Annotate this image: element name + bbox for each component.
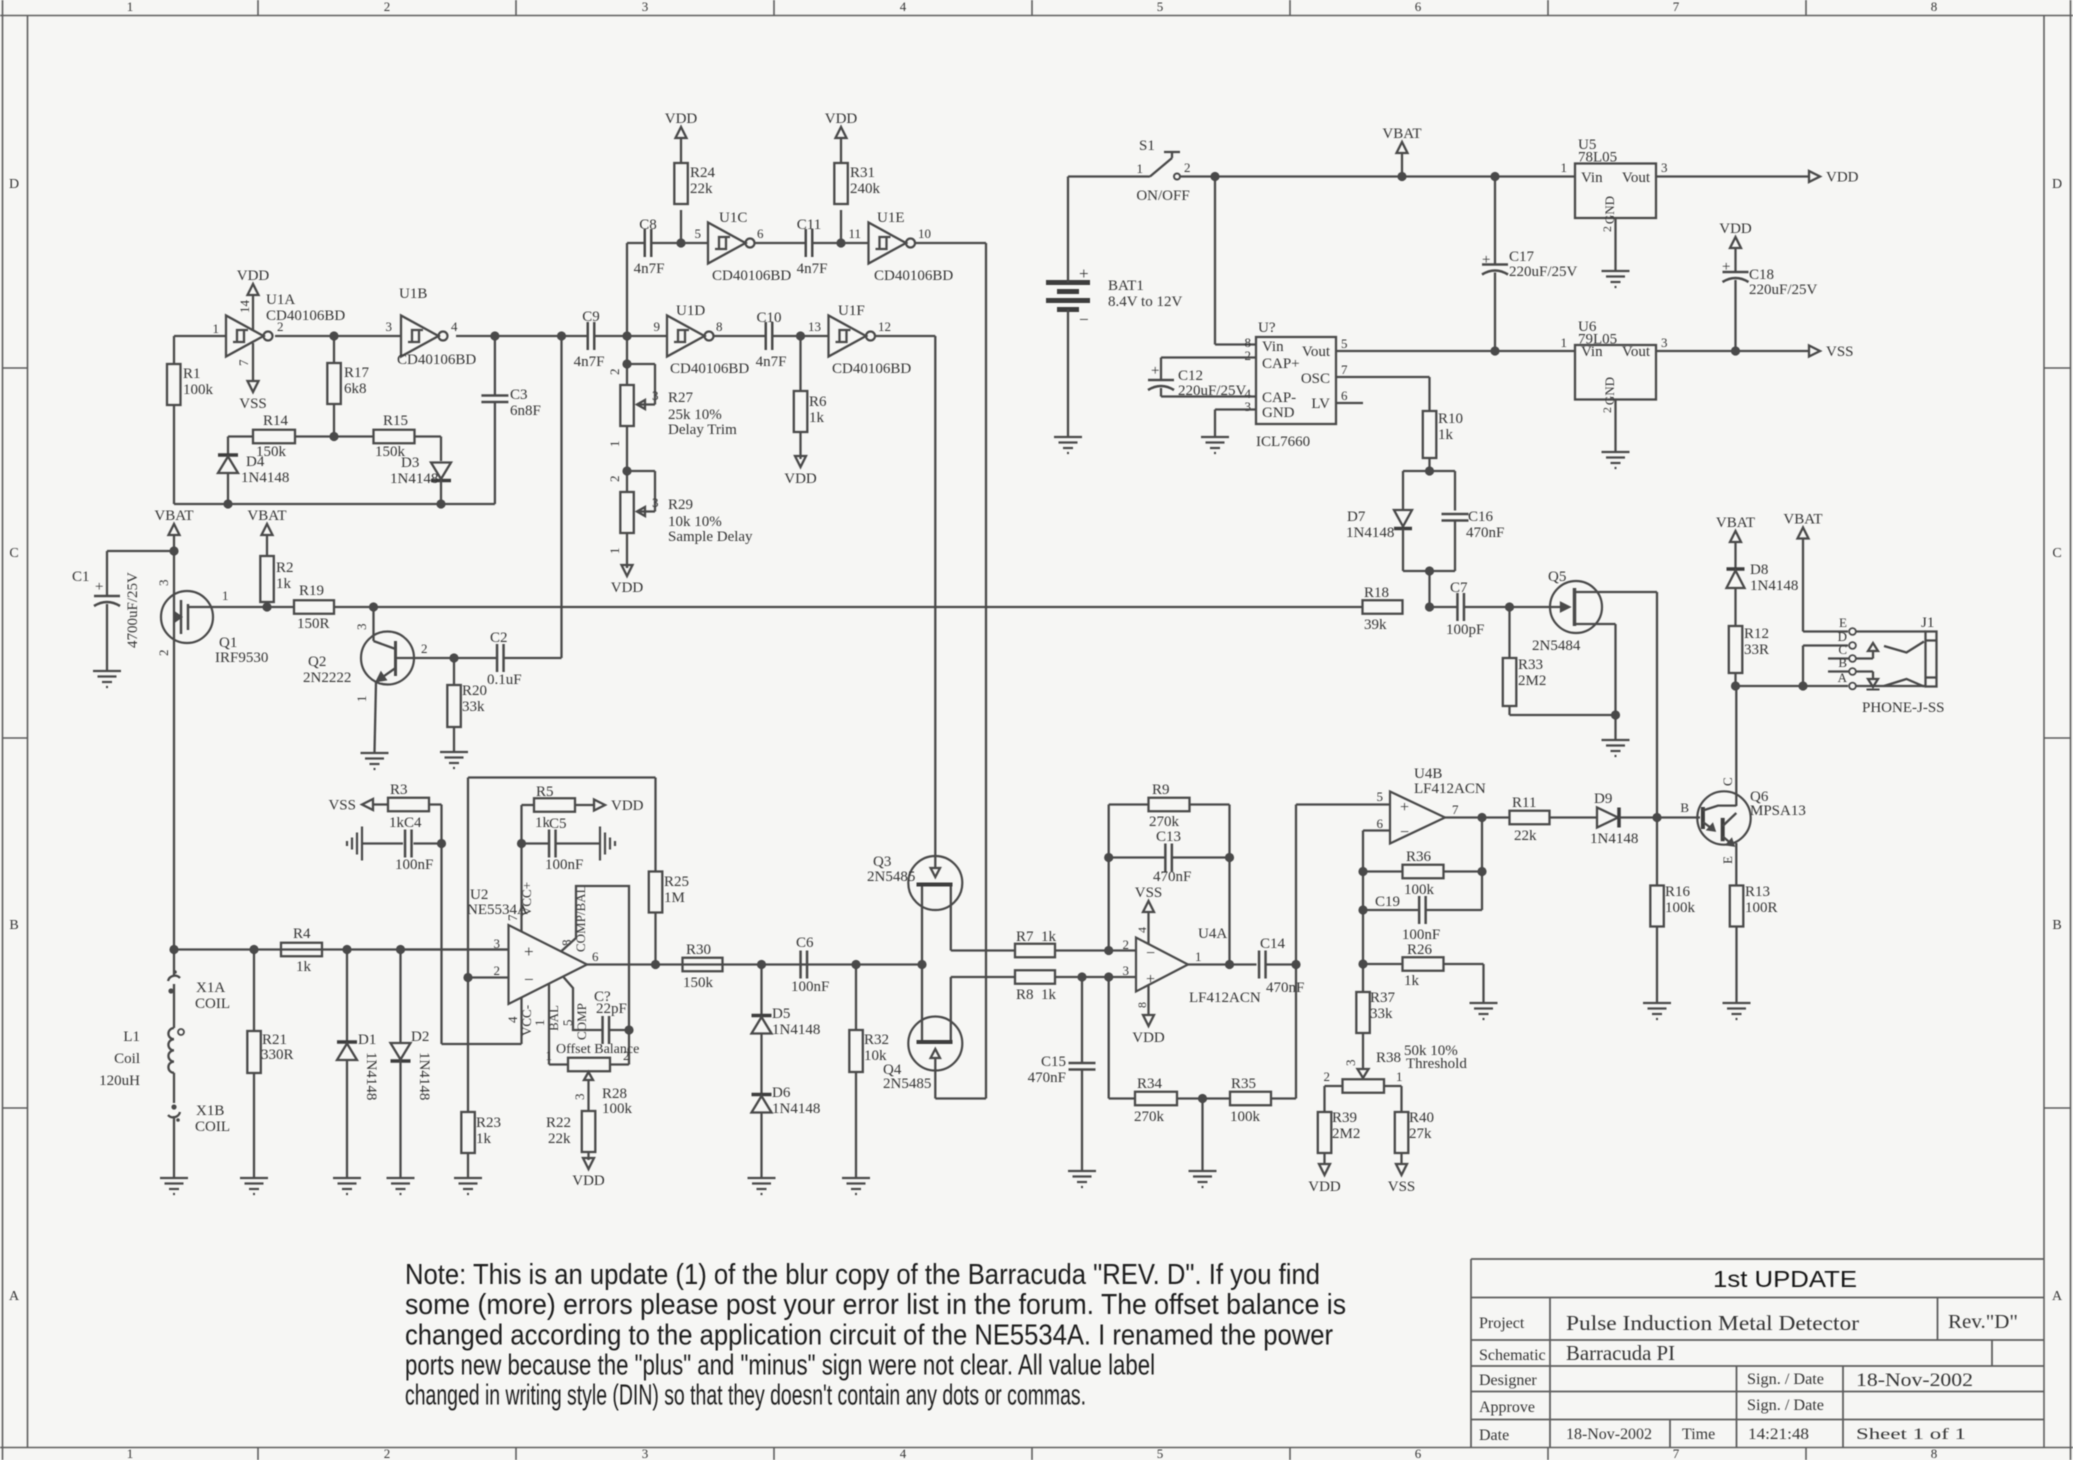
wire C14 node down to R35 — [1295, 965, 1297, 1099]
svg-text:Vout: Vout — [1622, 344, 1651, 360]
svg-text:3: 3 — [1245, 399, 1252, 414]
svg-text:3: 3 — [652, 495, 659, 510]
op-amp U4A LF412ACN — [1136, 938, 1188, 992]
node D1 top — [342, 945, 351, 954]
svg-text:U1E: U1E — [877, 210, 905, 226]
svg-text:VBAT: VBAT — [1716, 515, 1755, 531]
svg-text:6: 6 — [1341, 388, 1348, 403]
ground below D6 — [748, 1177, 776, 1179]
capacitor C5 — [522, 842, 550, 844]
svg-text:Date: Date — [1479, 1427, 1509, 1444]
node U4B output tie — [1477, 813, 1486, 822]
svg-text:R25: R25 — [664, 874, 689, 890]
resistor R15 — [334, 435, 374, 437]
svg-text:1: 1 — [222, 588, 229, 603]
svg-text:R28: R28 — [602, 1086, 627, 1102]
node D5 top — [757, 960, 766, 969]
capacitor C6 — [799, 951, 802, 979]
resistor R37 — [1356, 992, 1370, 1033]
svg-text:CD40106BD: CD40106BD — [397, 352, 476, 368]
svg-text:1st UPDATE: 1st UPDATE — [1713, 1266, 1857, 1292]
resistor R12 — [1729, 626, 1743, 673]
svg-text:changed in writing style (DIN): changed in writing style (DIN) so that t… — [405, 1380, 1086, 1412]
svg-text:R23: R23 — [476, 1115, 501, 1131]
svg-text:C3: C3 — [510, 387, 528, 403]
svg-text:8: 8 — [1931, 1446, 1938, 1460]
svg-text:−: − — [1079, 310, 1089, 329]
node D7/C16 bottom — [1425, 566, 1434, 575]
resistor R8 — [1015, 970, 1055, 984]
svg-text:240k: 240k — [850, 181, 881, 197]
op-amp U2 NE5534A — [509, 925, 588, 1004]
node R27/R29 tie — [622, 466, 631, 475]
svg-text:D: D — [9, 177, 19, 192]
svg-text:1N4148: 1N4148 — [1750, 578, 1798, 594]
svg-text:220uF/25V: 220uF/25V — [1749, 282, 1818, 298]
node jack A tie — [1798, 681, 1807, 690]
svg-text:10: 10 — [918, 226, 931, 241]
svg-text:R6: R6 — [809, 394, 827, 410]
regulator U5 78L05 — [1575, 164, 1656, 219]
svg-text:A: A — [2052, 1289, 2063, 1304]
inverter U1E — [869, 223, 907, 264]
svg-text:470nF: 470nF — [1153, 869, 1191, 885]
svg-text:1N4148: 1N4148 — [1590, 831, 1638, 847]
svg-text:2N2222: 2N2222 — [303, 670, 351, 686]
svg-text:2: 2 — [607, 369, 622, 376]
transistor Q4 2N5485 — [908, 1017, 962, 1071]
svg-text:+: + — [1482, 252, 1490, 268]
svg-text:R13: R13 — [1745, 884, 1770, 900]
node C13 left — [1104, 853, 1113, 862]
svg-text:11: 11 — [848, 226, 861, 241]
power VSS above U4A — [1147, 912, 1149, 944]
svg-text:X1B: X1B — [196, 1103, 224, 1119]
svg-text:1: 1 — [1195, 949, 1202, 964]
resistor R35 — [1230, 1092, 1271, 1106]
svg-text:78L05: 78L05 — [1578, 150, 1617, 166]
svg-text:+: + — [1400, 799, 1409, 816]
svg-text:R30: R30 — [686, 942, 711, 958]
svg-text:1k: 1k — [1404, 973, 1420, 989]
node C17 top — [1490, 172, 1499, 181]
svg-text:2: 2 — [607, 476, 622, 483]
svg-text:2: 2 — [421, 641, 428, 656]
node D7/C16 top — [1425, 466, 1434, 475]
inductor L1 coil — [173, 997, 175, 1028]
svg-text:13: 13 — [808, 319, 821, 334]
svg-text:220uF/25V: 220uF/25V — [1178, 383, 1247, 399]
wire C11 to U1E — [813, 242, 869, 244]
resistor R11 — [1510, 811, 1550, 825]
svg-text:Sign. / Date: Sign. / Date — [1747, 1371, 1824, 1388]
resistor R26 — [1363, 963, 1403, 965]
svg-text:VDD: VDD — [1308, 1179, 1341, 1195]
svg-text:6k8: 6k8 — [344, 381, 367, 397]
svg-text:1k: 1k — [389, 815, 405, 831]
wire U4B output — [1445, 816, 1510, 818]
svg-text:COMP: COMP — [574, 1003, 589, 1040]
svg-text:D7: D7 — [1347, 509, 1366, 525]
svg-text:330R: 330R — [261, 1047, 294, 1063]
svg-text:VSS: VSS — [1135, 885, 1163, 901]
transistor Q3 2N5485 — [908, 856, 962, 910]
svg-text:VBAT: VBAT — [1382, 126, 1421, 142]
node R27 wiper tie — [622, 359, 631, 368]
svg-text:470nF: 470nF — [1466, 525, 1504, 541]
svg-text:D3: D3 — [401, 455, 419, 471]
svg-text:LF412ACN: LF412ACN — [1414, 781, 1486, 797]
svg-text:Barracuda PI: Barracuda PI — [1566, 1341, 1675, 1365]
svg-text:Approve: Approve — [1479, 1399, 1535, 1416]
wire oscillator bottom rail — [174, 503, 495, 505]
svg-text:Delay Trim: Delay Trim — [668, 422, 737, 438]
wire R8 to U4A pin 3 — [1055, 976, 1136, 978]
svg-text:ICL7660: ICL7660 — [1256, 434, 1310, 450]
capacitor C14 — [1258, 951, 1261, 979]
svg-text:25k 10%: 25k 10% — [668, 407, 722, 423]
svg-text:Vout: Vout — [1622, 170, 1651, 186]
svg-text:1: 1 — [532, 1020, 547, 1027]
wire D7/C16 top rail — [1403, 470, 1455, 472]
svg-text:1k: 1k — [809, 410, 825, 426]
svg-text:R20: R20 — [462, 683, 487, 699]
inverter U1A — [226, 316, 264, 357]
resistor R10 — [1423, 411, 1437, 458]
svg-text:VDD: VDD — [1719, 221, 1752, 237]
svg-text:220uF/25V: 220uF/25V — [1509, 264, 1578, 280]
wire U7 GND to ground — [1215, 408, 1256, 410]
wire U2 pin 2 from feedback — [468, 976, 509, 978]
svg-text:VBAT: VBAT — [154, 508, 193, 524]
power VDD below R6 — [795, 456, 806, 467]
svg-text:U1B: U1B — [399, 286, 427, 302]
wire ground tap down — [1201, 1099, 1203, 1171]
ground below R23 — [454, 1177, 482, 1179]
svg-text:VSS: VSS — [328, 798, 356, 814]
wire U2 pin 8 COMP/BAL loop — [561, 886, 629, 1030]
wire U1C output to C11 — [755, 242, 807, 244]
wire U7 Vout to VSS rail — [1336, 350, 1575, 352]
svg-text:2: 2 — [1245, 348, 1252, 363]
resistor R25 — [649, 872, 663, 913]
resistor R5 — [522, 804, 535, 806]
svg-text:1: 1 — [607, 548, 622, 555]
node C?/offset balance tie — [624, 1025, 633, 1034]
svg-text:1N4148: 1N4148 — [772, 1022, 820, 1038]
inverter U1D — [667, 316, 705, 357]
svg-text:VDD: VDD — [611, 580, 644, 596]
svg-text:PHONE-J-SS: PHONE-J-SS — [1862, 700, 1945, 716]
connector J1 PHONE-J-SS — [1849, 628, 1856, 635]
resistor R18 — [1363, 600, 1403, 614]
capacitor C8 — [644, 229, 647, 257]
wire U2 output row — [587, 963, 922, 965]
svg-text:Vin: Vin — [1581, 170, 1603, 186]
ground below U7 — [1201, 436, 1229, 438]
node VBAT arrow tie — [1397, 172, 1406, 181]
svg-text:1: 1 — [607, 441, 622, 448]
resistor R32 — [855, 965, 857, 1031]
wire U1A input from R1 — [174, 335, 226, 337]
svg-text:270k: 270k — [1134, 1109, 1165, 1125]
svg-text:Q1: Q1 — [219, 635, 237, 651]
svg-text:D: D — [2052, 177, 2062, 192]
svg-text:0.1uF: 0.1uF — [487, 672, 522, 688]
svg-text:A: A — [9, 1289, 20, 1304]
node U2 pin 2 feedback tie — [463, 973, 472, 982]
svg-text:39k: 39k — [1364, 617, 1387, 633]
svg-text:VDD: VDD — [825, 111, 858, 127]
svg-text:2: 2 — [623, 1048, 630, 1063]
wire coil row to U2 pin 3 — [401, 948, 509, 950]
wire U5 Vout to VDD — [1656, 175, 1808, 177]
wire U4B pin 6 to feedback — [1363, 829, 1390, 831]
wire gate drive row to R18 — [334, 606, 1363, 608]
svg-text:C19: C19 — [1375, 894, 1400, 910]
wire Q6 collector — [1735, 686, 1737, 806]
svg-text:33k: 33k — [462, 699, 485, 715]
svg-text:ports new because the "plus" a: ports new because the "plus" and "minus"… — [405, 1350, 1155, 1382]
svg-text:1k: 1k — [296, 959, 312, 975]
wire D9 to Q6 base — [1619, 816, 1696, 818]
svg-text:R21: R21 — [262, 1032, 287, 1048]
diode D2 — [399, 950, 401, 1044]
power VDD below R22 — [583, 1158, 594, 1169]
svg-text:2: 2 — [494, 963, 501, 978]
diode D5 — [760, 965, 762, 1016]
potentiometer R29 Sample Delay — [620, 492, 634, 533]
svg-text:R22: R22 — [546, 1115, 571, 1131]
resistor R21 — [253, 950, 255, 1032]
resistor R2 — [262, 524, 273, 535]
svg-text:3: 3 — [652, 388, 659, 403]
svg-text:1N4148: 1N4148 — [363, 1052, 379, 1100]
resistor R24 — [680, 210, 682, 243]
power VDD above R31 — [836, 127, 847, 138]
svg-text:22k: 22k — [690, 181, 713, 197]
svg-text:150k: 150k — [683, 975, 714, 991]
svg-text:2: 2 — [384, 1446, 391, 1460]
svg-text:2: 2 — [1123, 937, 1130, 952]
svg-text:Sample Delay: Sample Delay — [668, 529, 753, 545]
resistor R23 — [461, 1112, 475, 1153]
svg-text:C5: C5 — [549, 816, 567, 832]
svg-text:100k: 100k — [602, 1101, 633, 1117]
svg-text:Note: This is an update (1) of: Note: This is an update (1) of the blur … — [405, 1259, 1320, 1291]
connector X1A — [173, 950, 175, 977]
wire C10 to U1F — [773, 335, 829, 337]
svg-text:R35: R35 — [1231, 1076, 1256, 1092]
node C18 bottom — [1731, 346, 1740, 355]
svg-text:1: 1 — [1561, 335, 1568, 350]
svg-text:1N4148: 1N4148 — [241, 470, 289, 486]
svg-text:3: 3 — [386, 319, 393, 334]
svg-text:8: 8 — [1931, 0, 1938, 14]
svg-text:Vin: Vin — [1581, 344, 1603, 360]
resistor R6 — [799, 336, 801, 391]
svg-text:MPSA13: MPSA13 — [1750, 803, 1806, 819]
earth left of C4 — [361, 827, 363, 861]
svg-text:1N4148: 1N4148 — [390, 471, 438, 487]
node R2/R19 tie — [262, 602, 271, 611]
svg-text:120uH: 120uH — [99, 1073, 140, 1089]
svg-text:4n7F: 4n7F — [756, 354, 787, 370]
resistor R16 — [1656, 818, 1658, 886]
svg-text:D9: D9 — [1594, 791, 1612, 807]
ground below Q2 — [361, 752, 389, 754]
diode D3 — [440, 460, 442, 462]
svg-text:CAP-: CAP- — [1262, 390, 1296, 406]
node R34/R35 ground tap — [1198, 1094, 1207, 1103]
svg-text:27k: 27k — [1409, 1126, 1432, 1142]
svg-text:C: C — [2052, 546, 2061, 561]
inverter U1B — [401, 316, 439, 357]
ground below C15 — [1068, 1170, 1096, 1172]
resistor R22 — [582, 1111, 596, 1152]
svg-text:Rev."D": Rev."D" — [1948, 1311, 2018, 1333]
wire R34 loop left — [1108, 977, 1110, 1099]
svg-text:100k: 100k — [1665, 900, 1696, 916]
wire U7 LV stub — [1336, 402, 1363, 404]
svg-text:1k: 1k — [276, 576, 292, 592]
svg-text:B: B — [2052, 918, 2061, 933]
svg-text:−: − — [1146, 945, 1155, 962]
svg-text:1: 1 — [1137, 161, 1144, 176]
svg-text:10k 10%: 10k 10% — [668, 514, 722, 530]
svg-text:4n7F: 4n7F — [797, 261, 828, 277]
svg-text:100pF: 100pF — [1446, 622, 1484, 638]
svg-text:D8: D8 — [1750, 562, 1768, 578]
svg-text:VDD: VDD — [237, 268, 270, 284]
svg-text:C8: C8 — [639, 217, 657, 233]
node R34 loop at pin 3 — [1104, 972, 1113, 981]
transistor Q1 IRF9530 — [161, 591, 213, 643]
svg-text:2: 2 — [1600, 226, 1614, 232]
svg-text:U4A: U4A — [1198, 926, 1227, 942]
svg-text:Q5: Q5 — [1548, 569, 1566, 585]
svg-text:R27: R27 — [668, 390, 694, 406]
potentiometer R28 Offset Balance — [628, 1030, 630, 1065]
svg-text:14: 14 — [237, 300, 252, 314]
ground below D2 — [387, 1177, 415, 1179]
wire C9 to U1D node — [595, 335, 668, 337]
diode D7 — [1394, 510, 1412, 527]
node C19 left — [1358, 905, 1367, 914]
ground below BAT1 — [1054, 436, 1082, 438]
resistor R33 — [1508, 607, 1510, 658]
node R31 bottom — [836, 238, 845, 247]
node R24 bottom — [676, 238, 685, 247]
svg-text:14:21:48: 14:21:48 — [1748, 1426, 1809, 1443]
svg-text:Pulse Induction Metal Detector: Pulse Induction Metal Detector — [1566, 1311, 1859, 1335]
svg-text:2: 2 — [1184, 160, 1191, 175]
svg-text:R29: R29 — [668, 497, 693, 513]
svg-text:8.4V to 12V: 8.4V to 12V — [1108, 294, 1182, 310]
wire battery positive to S1 — [1067, 177, 1069, 283]
svg-text:VDD: VDD — [1132, 1030, 1165, 1046]
wire C8 to U1C — [652, 242, 709, 244]
svg-text:6: 6 — [1377, 816, 1384, 831]
power VSS at U1A pin 7 — [252, 343, 254, 381]
diode D1 — [346, 950, 348, 1043]
node R36 left — [1358, 867, 1367, 876]
svg-text:3: 3 — [354, 624, 369, 631]
svg-text:4n7F: 4n7F — [634, 261, 665, 277]
capacitor C? 22pF — [601, 1016, 604, 1044]
svg-text:100nF: 100nF — [1402, 927, 1440, 943]
svg-text:C9: C9 — [582, 309, 600, 325]
svg-text:C6: C6 — [796, 935, 814, 951]
svg-text:COIL: COIL — [195, 996, 230, 1012]
wire R9 right to output leg — [1190, 803, 1230, 805]
capacitor C16 — [1442, 513, 1469, 516]
svg-text:7: 7 — [236, 359, 251, 366]
svg-text:100k: 100k — [1230, 1109, 1261, 1125]
svg-text:OSC: OSC — [1301, 371, 1330, 387]
resistor R39 — [1318, 1112, 1332, 1153]
svg-text:22pF: 22pF — [596, 1001, 627, 1017]
transistor Q2 2N2222 — [361, 632, 414, 685]
svg-text:1: 1 — [546, 1048, 553, 1063]
wire C14 node to U4B pin 5 — [1295, 805, 1297, 965]
wire jack E row — [1803, 630, 1848, 632]
svg-text:VSS: VSS — [239, 396, 267, 412]
power VDD below R39 — [1319, 1164, 1330, 1175]
capacitor C17 — [1494, 177, 1496, 264]
svg-text:Q3: Q3 — [873, 854, 891, 870]
title block grid — [1471, 1258, 2044, 1260]
svg-text:6n8F: 6n8F — [510, 403, 541, 419]
svg-text:Designer: Designer — [1479, 1372, 1537, 1389]
wire U1A output to U1B — [275, 335, 401, 337]
svg-text:100k: 100k — [183, 382, 214, 398]
wire VBAT to jack E — [1802, 539, 1804, 632]
resistor R19 — [294, 600, 334, 614]
wire source node to ground — [1614, 715, 1616, 739]
ground below D1 — [333, 1177, 361, 1179]
node R12 / jack A / Q6 collector — [1731, 681, 1740, 690]
svg-text:LV: LV — [1311, 396, 1330, 412]
svg-text:+: + — [1079, 264, 1089, 283]
power VBAT arrow on rail — [1401, 153, 1403, 177]
svg-text:100R: 100R — [1745, 900, 1778, 916]
wire U6 GND to ground — [1614, 400, 1616, 452]
svg-text:1: 1 — [354, 696, 369, 703]
svg-text:6: 6 — [757, 226, 764, 241]
svg-text:4: 4 — [900, 1446, 907, 1460]
svg-text:6: 6 — [592, 949, 599, 964]
svg-text:5: 5 — [1377, 789, 1384, 804]
svg-text:R31: R31 — [850, 165, 875, 181]
node R18 / D7 leg — [1425, 602, 1434, 611]
svg-text:3: 3 — [1661, 160, 1668, 175]
svg-text:R32: R32 — [864, 1032, 889, 1048]
svg-text:R7: R7 — [1016, 929, 1034, 945]
svg-text:5: 5 — [695, 226, 702, 241]
svg-text:R1: R1 — [183, 366, 201, 382]
svg-text:D1: D1 — [358, 1032, 376, 1048]
capacitor C9 — [587, 322, 590, 350]
ground below R32 — [842, 1177, 870, 1179]
port VDD after R5 — [594, 800, 605, 811]
svg-text:R40: R40 — [1409, 1110, 1434, 1126]
IC U7 ICL7660 — [1256, 337, 1336, 424]
svg-text:VDD: VDD — [611, 798, 644, 814]
svg-text:1N4148: 1N4148 — [416, 1052, 432, 1100]
svg-text:D6: D6 — [772, 1085, 791, 1101]
svg-text:LF412ACN: LF412ACN — [1189, 990, 1261, 1006]
